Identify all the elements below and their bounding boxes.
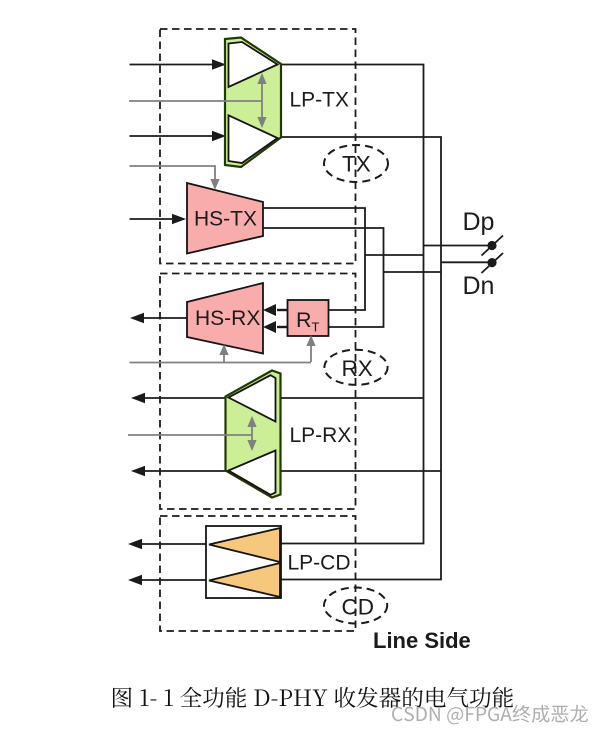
wire LP-TX bottom output to Dn bus [281, 137, 441, 580]
svg-text:TX: TX [342, 152, 371, 177]
svg-text:LP-CD: LP-CD [288, 552, 351, 575]
dashed box CD section [160, 516, 356, 631]
output arrow from LP-CD bottom [142, 579, 206, 581]
wire LP-RX bottom input from Dn bus [279, 470, 441, 472]
wire LP-RX top input from Dp bus [279, 397, 424, 399]
svg-text:HS-RX: HS-RX [195, 307, 260, 330]
LP-RX green envelope [226, 371, 281, 498]
arrow RT to HS-RX bottom [277, 326, 288, 328]
svg-text:HS-TX: HS-TX [194, 208, 257, 231]
wire Dp stub [424, 245, 493, 247]
CD mode ellipse [324, 588, 387, 624]
svg-text:Line Side: Line Side [373, 628, 471, 653]
termination resistor RT box [288, 300, 329, 336]
wire LP-TX top output to Dp bus [281, 65, 424, 544]
LP-TX bottom buffer triangle [229, 115, 278, 163]
wire Dn stub [441, 261, 492, 263]
HS-RX block [187, 283, 263, 354]
gray double arrow inside LP-TX [261, 81, 263, 120]
LP-CD top detector triangle [209, 528, 280, 562]
watermark CSDN [392, 705, 588, 724]
TX mode ellipse [324, 145, 388, 182]
wire jog HS-TX top to Dp bus [365, 254, 424, 256]
LP-CD box [206, 526, 281, 598]
svg-text:Dp: Dp [463, 208, 495, 236]
gray enable wire into HS-RX and RT [130, 362, 312, 364]
output arrow from LP-CD top [142, 543, 206, 545]
gray enable wire into HS-TX [130, 166, 216, 180]
input arrow to HS-TX [130, 218, 174, 220]
Dp pad dot and slash [487, 241, 496, 250]
svg-text:LP-RX: LP-RX [290, 424, 352, 447]
HS-TX block [187, 183, 263, 254]
wire HS-TX bottom output [263, 228, 384, 327]
output arrow from HS-RX [144, 317, 187, 319]
gray enable wire into LP-TX [129, 100, 262, 102]
Dn pad dot and slash [487, 258, 496, 267]
dashed box RX section [160, 274, 356, 510]
dashed box TX section [160, 29, 356, 264]
LP-RX bottom buffer triangle [229, 451, 276, 495]
svg-text:RX: RX [342, 356, 373, 381]
svg-text:LP-TX: LP-TX [290, 88, 350, 111]
input arrow to LP-TX bottom buffer [130, 135, 214, 137]
caption 图1-1 [113, 687, 513, 708]
RX mode ellipse [324, 350, 387, 385]
arrow RT to HS-RX top [277, 309, 288, 311]
svg-text:Dn: Dn [463, 272, 495, 300]
output arrow from LP-RX bottom buffer [145, 470, 226, 472]
LP-TX green envelope [225, 38, 281, 168]
LP-CD bottom detector triangle [209, 563, 280, 597]
wire HS-TX top output [263, 208, 365, 310]
LP-RX top buffer triangle [229, 375, 276, 421]
svg-text:R: R [296, 308, 312, 332]
gray double arrow inside LP-RX [251, 424, 253, 443]
LP-TX top buffer triangle [229, 42, 278, 87]
output arrow from LP-RX top buffer [145, 397, 226, 399]
svg-text:T: T [312, 320, 320, 335]
gray enable wire into LP-RX [128, 434, 252, 436]
input arrow to LP-TX top buffer [130, 64, 214, 66]
wire jog HS-TX bottom to Dn bus [384, 271, 442, 273]
svg-text:CD: CD [342, 595, 375, 620]
